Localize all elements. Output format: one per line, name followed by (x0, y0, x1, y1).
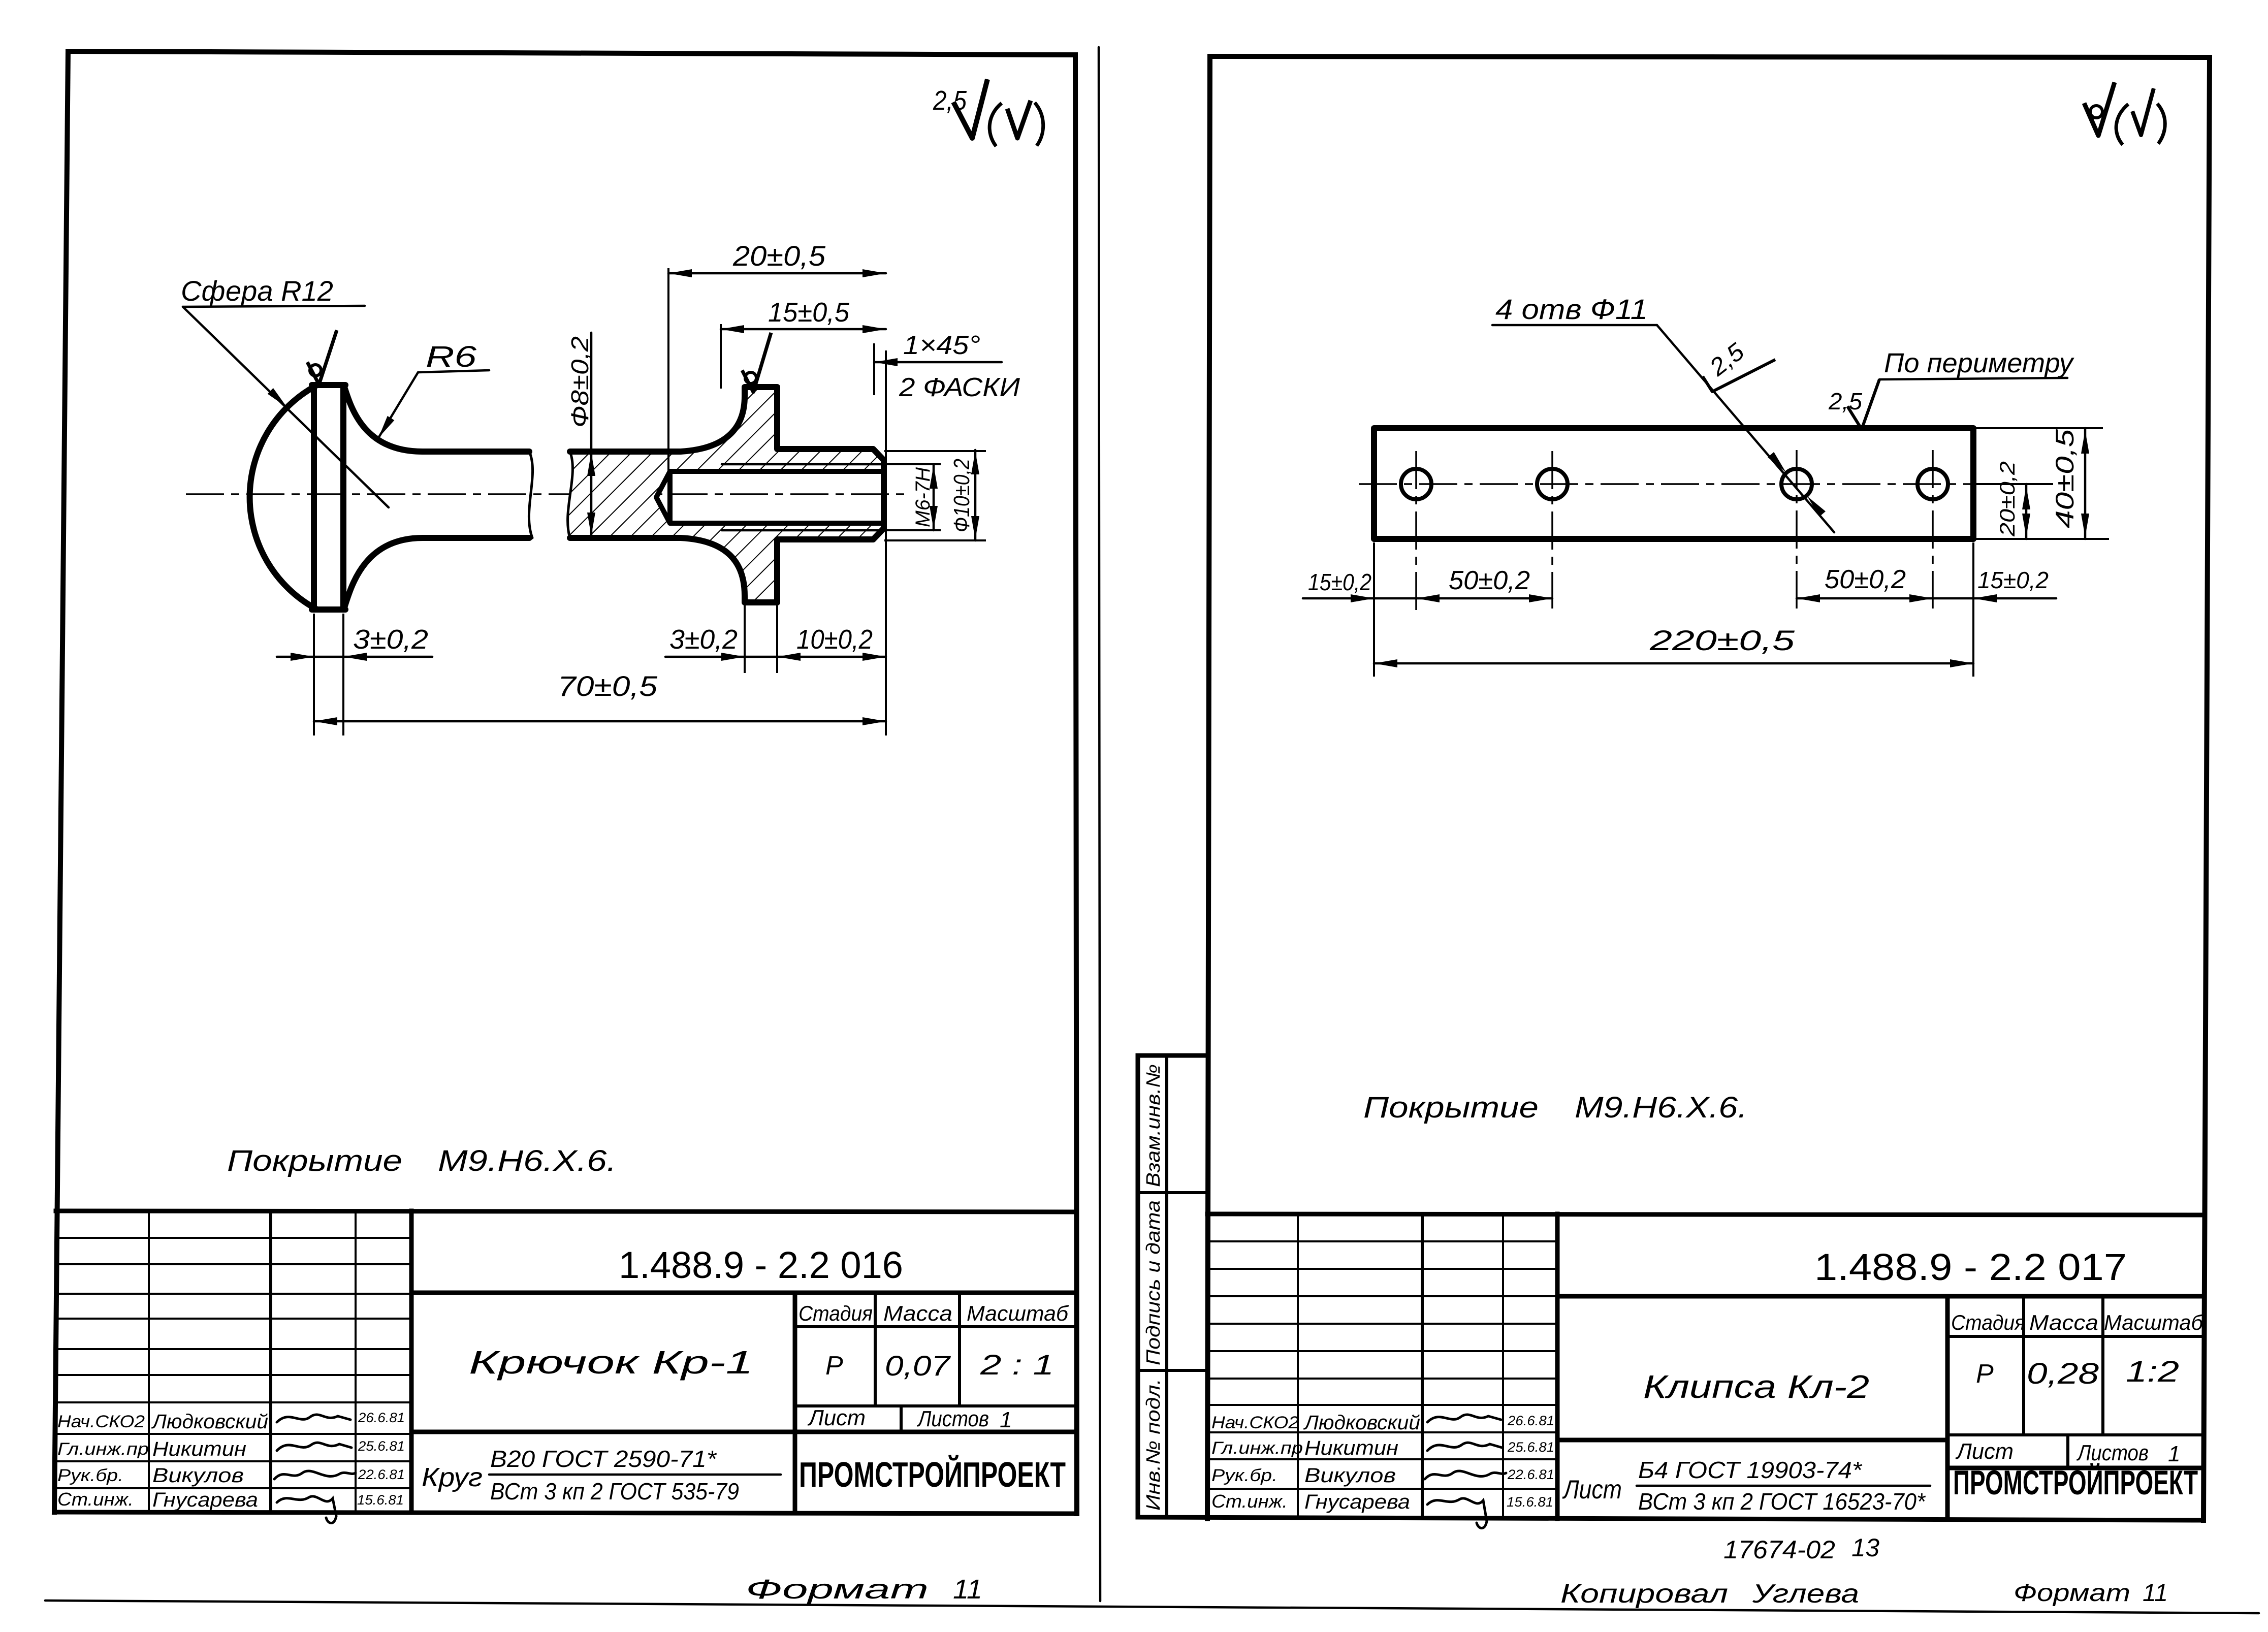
svg-text:17674-02: 17674-02 (1723, 1535, 1835, 1564)
svg-text:Стадия: Стадия (1951, 1310, 2025, 1334)
svg-text:11: 11 (2143, 1580, 2168, 1607)
svg-text:Покрытие: Покрытие (227, 1144, 402, 1177)
svg-text:В20 ГОСТ 2590-71*: В20 ГОСТ 2590-71* (490, 1446, 717, 1472)
svg-text:2 : 1: 2 : 1 (980, 1349, 1054, 1381)
svg-text:1.488.9 - 2.2 016: 1.488.9 - 2.2 016 (619, 1244, 903, 1286)
svg-text:Ф10±0,2: Ф10±0,2 (949, 459, 974, 532)
svg-text:2,5: 2,5 (933, 85, 967, 116)
svg-text:По периметру: По периметру (1884, 348, 2074, 378)
svg-text:1.488.9 - 2.2 017: 1.488.9 - 2.2 017 (1814, 1246, 2127, 1288)
svg-text:220±0,5: 220±0,5 (1649, 624, 1796, 656)
svg-text:Гл.инж.пр: Гл.инж.пр (57, 1439, 149, 1459)
svg-text:25.6.81: 25.6.81 (1507, 1439, 1554, 1455)
svg-text:Никитин: Никитин (1304, 1437, 1398, 1459)
svg-text:20±0,2: 20±0,2 (1995, 461, 2019, 537)
svg-text:Листов: Листов (916, 1406, 989, 1431)
svg-text:1×45°: 1×45° (903, 331, 980, 360)
svg-text:Рук.бр.: Рук.бр. (1211, 1466, 1277, 1485)
svg-text:1:2: 1:2 (2126, 1355, 2179, 1388)
svg-text:Нач.СКО2: Нач.СКО2 (57, 1412, 145, 1431)
svg-text:Нач.СКО2: Нач.СКО2 (1211, 1413, 1299, 1432)
svg-text:Листов: Листов (2076, 1441, 2149, 1465)
svg-text:ПРОМСТРОЙПРОЕКТ: ПРОМСТРОЙПРОЕКТ (1953, 1463, 2198, 1502)
svg-text:Викулов: Викулов (1304, 1464, 1396, 1487)
svg-text:Р: Р (1976, 1359, 1994, 1389)
svg-text:15.6.81: 15.6.81 (357, 1492, 404, 1508)
svg-text:Масштаб: Масштаб (2104, 1310, 2203, 1334)
svg-text:Масса: Масса (883, 1301, 952, 1325)
svg-text:50±0,2: 50±0,2 (1449, 566, 1530, 595)
svg-text:15.6.81: 15.6.81 (1507, 1494, 1553, 1510)
svg-text:Подпись и дата: Подпись и дата (1143, 1200, 1164, 1365)
svg-text:Инв.№ подл.: Инв.№ подл. (1143, 1379, 1164, 1511)
svg-text:15±0,5: 15±0,5 (768, 297, 850, 328)
svg-text:Викулов: Викулов (152, 1464, 244, 1487)
svg-text:Рук.бр.: Рук.бр. (57, 1466, 123, 1485)
svg-text:Гл.инж.пр: Гл.инж.пр (1211, 1438, 1303, 1458)
svg-text:Стадия: Стадия (798, 1301, 873, 1325)
svg-text:2,5: 2,5 (1828, 388, 1862, 414)
svg-text:Гнусарева: Гнусарева (1304, 1491, 1410, 1513)
svg-text:Б4 ГОСТ 19903-74*: Б4 ГОСТ 19903-74* (1638, 1457, 1863, 1483)
svg-text:Масштаб: Масштаб (967, 1301, 1069, 1325)
svg-text:25.6.81: 25.6.81 (358, 1438, 405, 1454)
svg-text:26.6.81: 26.6.81 (1507, 1413, 1554, 1428)
svg-text:Формат: Формат (2014, 1580, 2130, 1607)
svg-text:ПРОМСТРОЙПРОЕКТ: ПРОМСТРОЙПРОЕКТ (799, 1454, 1066, 1494)
svg-text:10±0,2: 10±0,2 (796, 624, 873, 655)
svg-text:0,28: 0,28 (2027, 1357, 2099, 1390)
svg-text:Лист: Лист (807, 1405, 866, 1430)
svg-text:Крючок Кр-1: Крючок Кр-1 (469, 1344, 753, 1381)
svg-text:Клипса Кл-2: Клипса Кл-2 (1643, 1368, 1869, 1405)
svg-text:Сфера R12: Сфера R12 (181, 275, 333, 307)
svg-text:Людковский: Людковский (151, 1411, 268, 1433)
svg-text:1: 1 (2168, 1442, 2180, 1466)
svg-text:4 отв Ф11: 4 отв Ф11 (1495, 293, 1648, 325)
svg-text:Лист: Лист (1562, 1475, 1622, 1505)
svg-text:50±0,2: 50±0,2 (1825, 565, 1906, 594)
svg-text:70±0,5: 70±0,5 (558, 670, 658, 702)
svg-text:15±0,2: 15±0,2 (1977, 567, 2049, 593)
svg-text:11: 11 (953, 1574, 982, 1605)
svg-text:2 ФАСКИ: 2 ФАСКИ (899, 373, 1020, 402)
svg-text:Людковский: Людковский (1303, 1412, 1420, 1434)
svg-text:0,07: 0,07 (885, 1350, 951, 1382)
svg-text:М6-7Н: М6-7Н (912, 467, 934, 527)
svg-text:15±0,2: 15±0,2 (1308, 569, 1371, 595)
svg-text:3±0,2: 3±0,2 (353, 624, 428, 655)
svg-text:Никитин: Никитин (152, 1438, 246, 1460)
svg-text:3±0,2: 3±0,2 (669, 624, 738, 655)
svg-text:Лист: Лист (1955, 1439, 2014, 1464)
svg-text:Углева: Углева (1752, 1579, 1859, 1609)
svg-text:Круг: Круг (422, 1463, 483, 1492)
svg-text:22.6.81: 22.6.81 (1507, 1467, 1554, 1482)
svg-text:13: 13 (1851, 1533, 1879, 1562)
svg-text:Ф8±0,2: Ф8±0,2 (567, 336, 594, 428)
svg-text:40±0,5: 40±0,5 (2051, 429, 2079, 528)
svg-text:1: 1 (1000, 1407, 1012, 1432)
svg-text:26.6.81: 26.6.81 (358, 1410, 405, 1425)
svg-text:22.6.81: 22.6.81 (358, 1467, 405, 1482)
svg-text:Гнусарева: Гнусарева (152, 1489, 258, 1511)
svg-text:R6: R6 (426, 340, 477, 373)
svg-text:20±0,5: 20±0,5 (732, 240, 826, 272)
svg-text:М9.Н6.Х.6.: М9.Н6.Х.6. (1575, 1091, 1747, 1124)
svg-text:Ст.инж.: Ст.инж. (1211, 1491, 1288, 1512)
svg-text:М9.Н6.Х.6.: М9.Н6.Х.6. (438, 1144, 617, 1177)
svg-text:Масса: Масса (2029, 1310, 2098, 1334)
svg-text:Покрытие: Покрытие (1363, 1091, 1539, 1124)
svg-text:Р: Р (825, 1351, 843, 1381)
svg-text:Копировал: Копировал (1560, 1579, 1728, 1609)
svg-text:ВСт 3 кп 2 ГОСТ 535-79: ВСт 3 кп 2 ГОСТ 535-79 (490, 1478, 739, 1505)
svg-text:Формат: Формат (746, 1574, 929, 1605)
svg-text:Взам.инв.№: Взам.инв.№ (1143, 1064, 1164, 1187)
svg-text:Ст.инж.: Ст.инж. (57, 1489, 134, 1510)
svg-text:ВСт 3 кп 2 ГОСТ 16523-70*: ВСт 3 кп 2 ГОСТ 16523-70* (1638, 1488, 1926, 1515)
